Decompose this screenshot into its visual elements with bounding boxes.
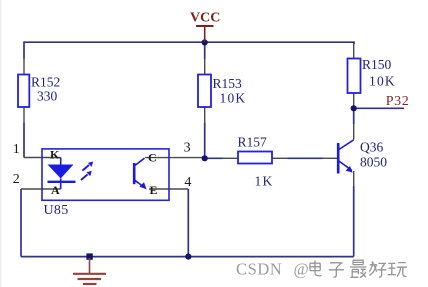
svg-text:CSDN: CSDN [236, 260, 282, 279]
U85 phototransistor [134, 158, 146, 189]
resistor R150 [348, 57, 396, 93]
svg-text:VCC: VCC [190, 11, 220, 26]
pin lead R150 bottom [353, 93, 355, 108]
power VCC [190, 11, 220, 43]
watermark char wan [388, 263, 407, 277]
transistor Q2 Q36 [338, 140, 354, 174]
pin lead Q36 collector [353, 124, 355, 140]
watermark char zi [329, 263, 344, 277]
junction node VCC [202, 39, 208, 45]
pin 4 lead U85 [149, 188, 188, 190]
pin lead R152 top [23, 59, 25, 75]
wire Q36 emitter down [353, 186, 355, 257]
wire R153 to node 3 [204, 123, 206, 158]
pin lead Q36 base [323, 157, 338, 159]
svg-text:4: 4 [184, 175, 191, 190]
pin lead R153 top [204, 59, 206, 75]
svg-text:U85: U85 [44, 203, 69, 218]
svg-text:A: A [51, 183, 60, 197]
resistor R157 [238, 135, 274, 189]
resistor R153 [198, 75, 246, 108]
watermark char dian [310, 260, 322, 275]
svg-text:Q36: Q36 [360, 140, 383, 155]
svg-text:10K: 10K [369, 74, 396, 89]
svg-text:R152: R152 [31, 75, 60, 90]
svg-text:1: 1 [13, 142, 20, 157]
svg-text:C: C [148, 150, 157, 164]
wire middle vertical (VCC junction to R153) [204, 42, 206, 59]
wire left vertical upper (top rail to R152) [23, 41, 25, 59]
optocoupler U85 [42, 149, 169, 218]
wire node 3 to R157 [205, 157, 223, 159]
svg-text:E: E [150, 183, 158, 197]
pin lead R157 left [223, 157, 239, 159]
svg-text:10K: 10K [220, 91, 247, 106]
U85 LED [48, 158, 76, 190]
junction node 3 [202, 155, 208, 161]
svg-text:330: 330 [37, 89, 58, 104]
net P32 stub [354, 107, 404, 109]
svg-text:R150: R150 [362, 57, 392, 72]
svg-text:3: 3 [184, 140, 191, 155]
junction node pin4/bottom rail [185, 254, 191, 260]
svg-text:K: K [50, 148, 60, 162]
junction node ground (square) [86, 253, 92, 259]
wire right vertical top (top rail to R150) [353, 41, 355, 44]
svg-text:R153: R153 [213, 76, 243, 91]
pin lead R150 top [353, 43, 355, 59]
pin lead Q36 emitter [353, 171, 355, 186]
wire bottom rail [21, 256, 354, 258]
pin 2 lead U85 [21, 188, 61, 190]
svg-text:2: 2 [13, 172, 20, 187]
wire pin4 down [187, 189, 189, 257]
U85 light arrows [81, 162, 93, 181]
pin 3 lead U85 [145, 157, 205, 159]
ground [73, 258, 106, 284]
wire R157 to Q36 base [288, 157, 323, 159]
svg-text:1K: 1K [255, 174, 274, 189]
svg-text:8050: 8050 [360, 155, 387, 170]
junction node P32 [351, 105, 357, 111]
svg-text:R157: R157 [238, 135, 268, 150]
wire P32 node to Q36 collector [353, 108, 355, 124]
pin lead R153 bottom [204, 107, 206, 123]
pin lead R152 bottom [23, 107, 25, 123]
svg-text:P32: P32 [386, 94, 410, 109]
wire left vertical lower (R152 to pin1) [23, 123, 25, 158]
svg-text:@: @ [294, 260, 309, 279]
wire left bottom vertical (pin2 down) [20, 189, 22, 257]
pin lead R157 right [272, 157, 288, 159]
watermark char zui [350, 260, 366, 277]
wire top rail [24, 41, 354, 43]
watermark char hao [369, 261, 386, 277]
resistor R152 [18, 75, 60, 108]
pin 1 lead U85 [24, 157, 61, 159]
